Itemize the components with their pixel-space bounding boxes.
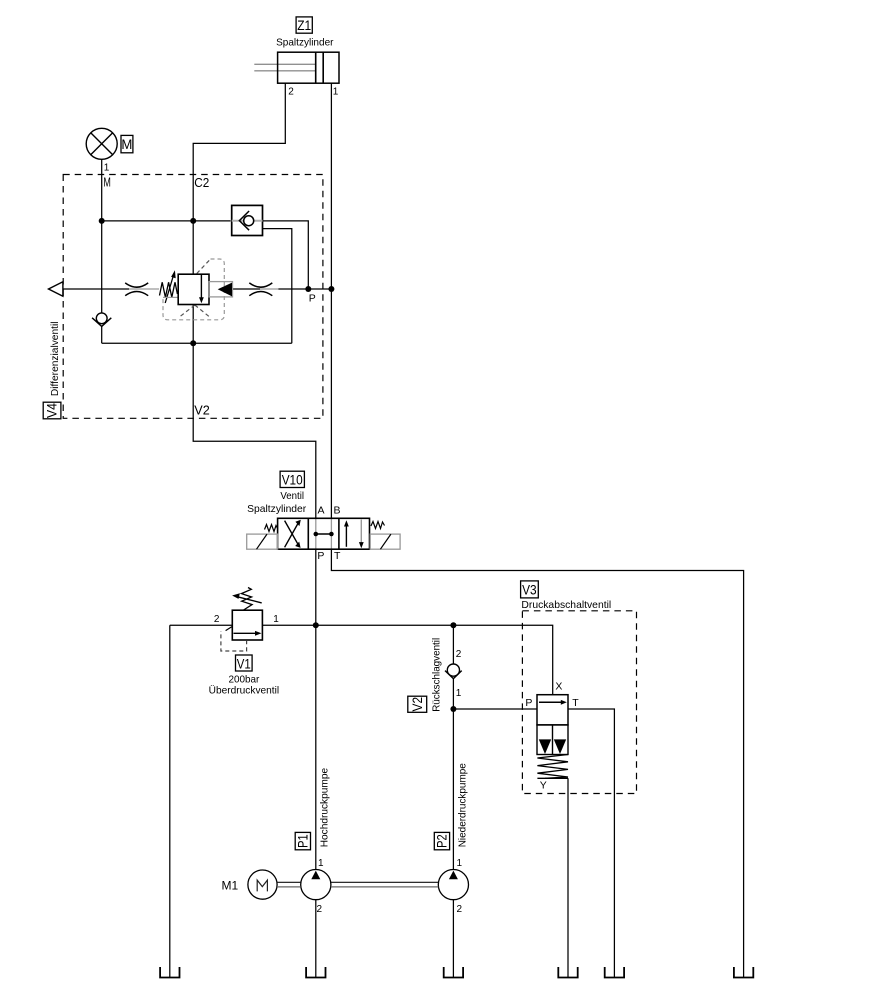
svg-text:Überdruckventil: Überdruckventil: [209, 684, 280, 696]
svg-text:2: 2: [456, 649, 462, 660]
svg-text:Y: Y: [540, 780, 547, 792]
svg-text:2: 2: [288, 86, 294, 97]
svg-text:Spaltzylinder: Spaltzylinder: [247, 503, 307, 515]
svg-text:M1: M1: [222, 878, 239, 892]
svg-text:V2: V2: [409, 697, 425, 712]
svg-text:C2: C2: [194, 176, 209, 190]
svg-text:P1: P1: [295, 834, 311, 848]
svg-text:Spaltzylinder: Spaltzylinder: [276, 37, 334, 49]
svg-text:1: 1: [456, 688, 462, 699]
svg-text:2: 2: [457, 904, 463, 915]
svg-text:1: 1: [104, 163, 110, 174]
svg-text:1: 1: [318, 858, 324, 869]
svg-text:M: M: [121, 136, 132, 152]
svg-text:P: P: [525, 697, 532, 709]
svg-text:V2: V2: [194, 404, 210, 418]
svg-text:Z1: Z1: [297, 17, 311, 33]
svg-text:T: T: [572, 697, 579, 709]
svg-text:P: P: [317, 550, 324, 562]
svg-text:1: 1: [457, 858, 463, 869]
svg-text:Hochdruckpumpe: Hochdruckpumpe: [319, 768, 331, 848]
svg-text:2: 2: [214, 614, 220, 625]
svg-text:2: 2: [317, 904, 323, 915]
svg-text:P: P: [309, 293, 316, 305]
svg-text:B: B: [334, 504, 341, 516]
svg-text:Rückschlagventil: Rückschlagventil: [431, 638, 443, 712]
svg-text:1: 1: [333, 86, 339, 97]
svg-text:Differenzialventil: Differenzialventil: [49, 322, 61, 397]
svg-text:X: X: [555, 681, 562, 693]
svg-text:V10: V10: [282, 472, 303, 488]
svg-text:Niederdruckpumpe: Niederdruckpumpe: [457, 763, 469, 847]
svg-text:V1: V1: [237, 655, 251, 671]
svg-text:Ventil: Ventil: [280, 490, 304, 502]
svg-text:V4: V4: [44, 403, 60, 418]
svg-text:1: 1: [273, 614, 279, 625]
svg-text:T: T: [334, 550, 341, 562]
svg-text:V3: V3: [522, 582, 537, 598]
svg-text:A: A: [318, 504, 325, 516]
svg-text:P2: P2: [434, 834, 450, 848]
svg-text:Druckabschaltventil: Druckabschaltventil: [521, 599, 611, 611]
svg-text:M: M: [103, 175, 111, 189]
